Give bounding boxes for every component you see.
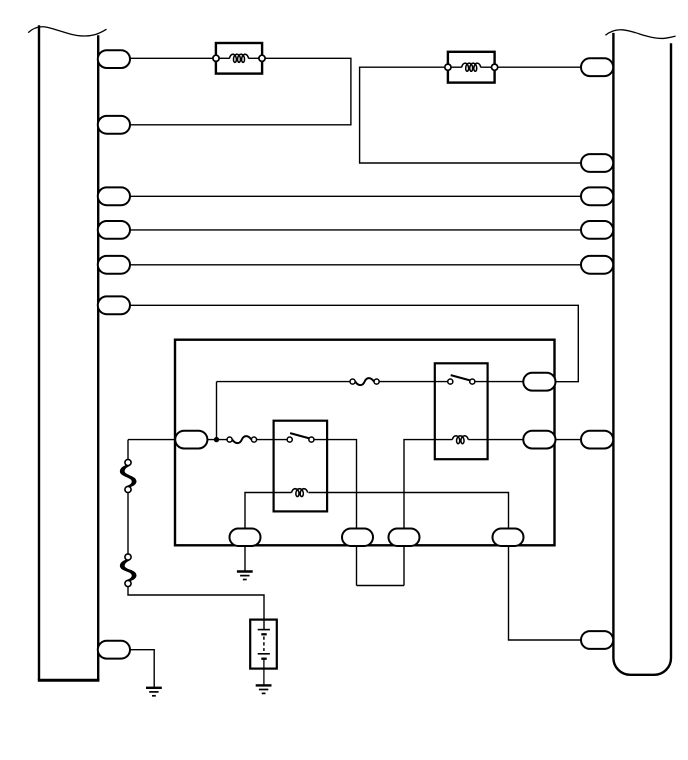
- relay K1 box: [435, 363, 488, 459]
- wire: left pin oval to fuse F2: [205, 439, 227, 441]
- right bus break mark: [605, 30, 675, 39]
- wire: right pin oval to T13: [555, 439, 583, 441]
- K1 contact blade: [451, 375, 470, 380]
- K2 contact blade: [290, 433, 309, 438]
- K2 contact circles: [287, 437, 314, 442]
- twisted shield S2: [121, 554, 136, 587]
- U1 pin oval P4: [493, 529, 524, 547]
- wire: row F T6 right then down to U1 pin oval: [129, 305, 578, 381]
- U1 pin oval P2: [342, 529, 373, 547]
- battery B1 box: [250, 620, 277, 669]
- suppressor L1 box: [216, 43, 262, 74]
- connector T8: [581, 58, 613, 76]
- U1 pin oval P3: [389, 529, 420, 547]
- U1 pin oval right top: [523, 373, 555, 391]
- chassis ground left: [146, 687, 162, 689]
- wire: pin P1 to ground: [244, 545, 246, 572]
- wire: row E T5 to T12: [129, 264, 582, 266]
- twisted shield S1: [121, 459, 136, 492]
- ground under pin P1: [237, 570, 253, 572]
- battery ground: [256, 684, 272, 686]
- L2 lead left: [451, 66, 462, 68]
- connector T10: [581, 187, 613, 205]
- thermal fuse F2: [227, 436, 256, 443]
- wire: F1 to K1 contact: [379, 381, 448, 383]
- relay K2 box: [274, 421, 328, 512]
- connector T9: [581, 154, 613, 172]
- L2 terminal circles: [445, 64, 498, 70]
- right harness bus W2: [613, 33, 671, 675]
- wire: K2 contact right then down through pin P2 to under-box link: [314, 440, 357, 586]
- left harness bus W1: [38, 25, 100, 680]
- U1 pin oval right mid: [523, 431, 555, 449]
- connector T13: [581, 431, 613, 449]
- wire: T7 to chassis ground: [129, 650, 154, 688]
- K2 coil: [292, 489, 308, 497]
- battery cells: [258, 630, 270, 686]
- wire: L1 right loop down to row B and back to T2: [129, 58, 351, 125]
- left bus break mark: [28, 27, 106, 36]
- U1 pin oval left: [175, 431, 207, 449]
- connector T14: [581, 631, 613, 649]
- connector T1: [98, 50, 130, 68]
- wire: row D T4 to T11: [129, 229, 582, 231]
- connector T12: [581, 256, 613, 274]
- L1 coil: [230, 54, 249, 62]
- connector T11: [581, 221, 613, 239]
- connector T6: [98, 296, 130, 314]
- connector T7: [98, 641, 130, 659]
- wire: row C T3 to T10: [129, 195, 582, 197]
- K1 coil: [452, 436, 468, 444]
- L2 lead right: [481, 66, 492, 68]
- L1 lead left: [219, 57, 230, 59]
- wire: node branch vertical from junction to contact row: [216, 382, 218, 440]
- U1 pin oval P1: [230, 529, 261, 547]
- wire: row H left to shielded section: [127, 440, 129, 460]
- L1 terminal circles: [213, 55, 265, 61]
- wire: under-box link across: [357, 585, 405, 587]
- wire: contact row G to fuse F1: [217, 381, 351, 383]
- L1 lead right: [248, 57, 259, 59]
- thermal fuse F1: [350, 378, 379, 385]
- connector T2: [98, 116, 130, 134]
- connector T3: [98, 187, 130, 205]
- K1 contact circles: [448, 379, 475, 384]
- connector T4: [98, 221, 130, 239]
- wire: L2 left loop down to T9: [360, 67, 582, 163]
- wire: L2 right to T8: [495, 66, 582, 68]
- wire: K1 coil line to right pin oval: [468, 439, 527, 441]
- wire: F2 to K2 contact: [257, 439, 288, 441]
- wire: between shield sections: [127, 492, 129, 554]
- connector T5: [98, 256, 130, 274]
- wire: K2 coil line right then down to pin P4: [308, 493, 508, 531]
- wire: K1 contact to pin oval: [475, 381, 527, 383]
- suppressor L2 box: [448, 52, 495, 83]
- wire: row A from T1 to L1: [129, 57, 216, 59]
- wire: row H into U1 left pin oval: [128, 439, 178, 441]
- wire: K2 coil line left then down to pin P1: [245, 493, 292, 531]
- wire: pin P4 down right to T14: [509, 545, 583, 640]
- wire: shield 2 down to battery: [128, 586, 264, 629]
- wire: vertical through pin P3 up to K1 coil line: [404, 440, 452, 586]
- L2 coil: [462, 63, 481, 71]
- control unit box U1: [175, 340, 555, 546]
- junction node dot: [214, 437, 219, 442]
